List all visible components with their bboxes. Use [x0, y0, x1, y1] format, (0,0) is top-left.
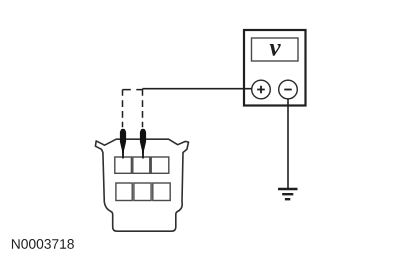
connector cavity row1 cell3	[151, 157, 169, 173]
connector cavity row1 cell1	[115, 157, 132, 173]
voltmeter display window	[252, 38, 299, 61]
voltmeter positive terminal	[252, 80, 271, 99]
wire: dashed horizontal jumper	[123, 89, 143, 91]
ground G1	[278, 188, 298, 191]
wire: negative lead to ground	[287, 99, 289, 188]
connector cavity row2 cell3	[153, 183, 170, 201]
connector C1 housing	[95, 139, 188, 231]
probe 2	[140, 129, 146, 159]
voltmeter V label	[270, 44, 281, 56]
wire: dashed drop to probe 2	[142, 89, 144, 128]
wire: positive lead solid segment	[143, 88, 252, 90]
wire: dashed drop to probe 1	[122, 90, 124, 128]
voltmeter negative terminal	[279, 80, 298, 99]
probe 1	[120, 129, 126, 159]
connector cavity row2 cell1	[116, 183, 132, 201]
figure number label	[12, 239, 74, 249]
connector cavity row2 cell2	[134, 183, 151, 201]
voltmeter U1 body	[244, 30, 306, 106]
connector cavity row1 cell2	[133, 157, 150, 173]
